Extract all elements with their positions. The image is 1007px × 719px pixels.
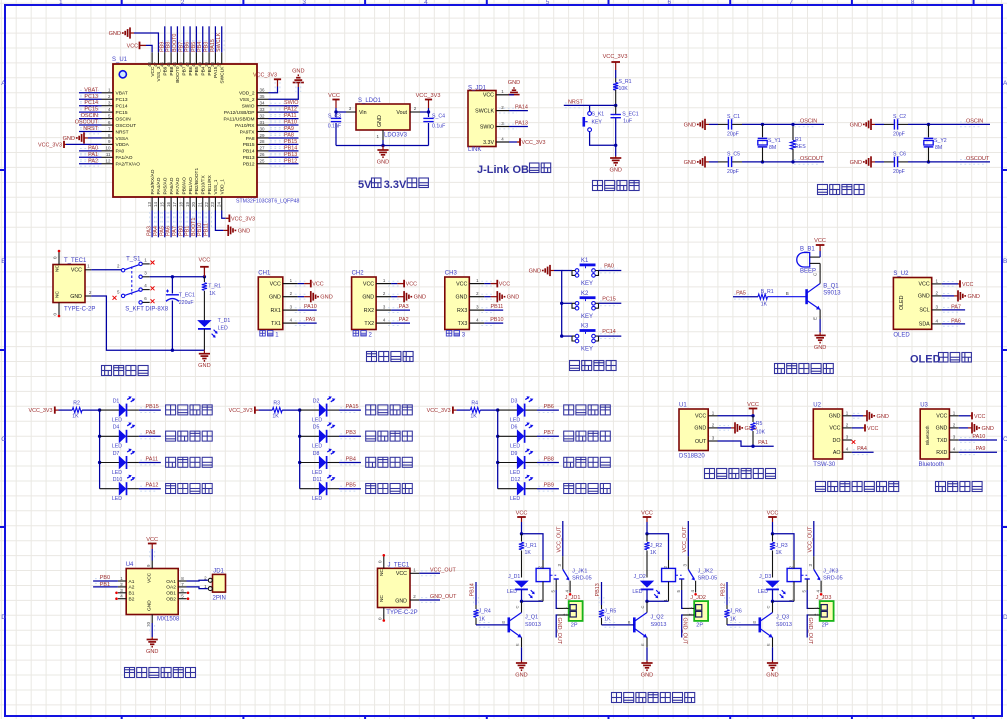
svg-text:1K: 1K (761, 302, 768, 308)
wire (151, 623, 153, 637)
svg-text:GND: GND (146, 649, 158, 655)
ground at J_Q3 (772, 661, 774, 664)
svg-text:GND: GND (829, 414, 841, 420)
power VCC_3V3 at JD1 3.3V pin (509, 138, 545, 146)
junction (771, 600, 774, 603)
svg-text:A: A (1003, 80, 1007, 87)
net label OSCOUT (960, 156, 990, 164)
wire (151, 549, 153, 561)
svg-text:VCC: VCC (456, 281, 467, 287)
svg-text:GND: GND (377, 160, 389, 166)
junction (761, 160, 764, 163)
svg-text:J_JK1: J_JK1 (572, 569, 587, 575)
svg-text:37: 37 (217, 62, 222, 68)
svg-text:BOOT1: BOOT1 (191, 218, 197, 236)
svg-text:1K: 1K (470, 414, 477, 420)
led D3 (498, 396, 534, 423)
svg-text:T_R1: T_R1 (208, 284, 221, 290)
JD1 pin 1 VCC (483, 89, 509, 99)
svg-text:KEY: KEY (581, 347, 593, 353)
svg-text:PB5: PB5 (191, 42, 197, 52)
wire (339, 409, 361, 411)
wire (335, 123, 337, 146)
svg-text:PA6: PA6 (166, 226, 172, 236)
wire (772, 590, 774, 602)
wire (726, 582, 728, 605)
mcu U1 pin 24 VDD_1 (217, 179, 226, 211)
power VCC at buzzer (814, 238, 826, 251)
wire (146, 45, 152, 52)
power VCC_3V3 at U1 VDDA (38, 141, 101, 149)
driver U4 MX1508 body (126, 569, 178, 615)
wire (336, 108, 346, 112)
svg-text:PA5: PA5 (159, 226, 165, 236)
svg-text:PC15: PC15 (84, 107, 98, 113)
power VCC at CH1 (295, 280, 324, 288)
svg-text:C: C (515, 606, 520, 609)
mcu U1 pin 23 VSS_1 (210, 179, 219, 210)
svg-text:C: C (640, 606, 645, 609)
svg-text:VCC: VCC (147, 572, 153, 583)
wire J_Q3 collector (766, 601, 773, 612)
svg-text:J_JK2: J_JK2 (698, 569, 713, 575)
power VCC at U1 pin48 (127, 42, 152, 53)
svg-text:PA2/TX/AO: PA2/TX/AO (116, 162, 141, 168)
net label PB1 (93, 582, 118, 588)
wire (646, 590, 648, 602)
push button S_K1 KEY (584, 112, 605, 132)
mcu U1 pin 21 PB10/TX (198, 175, 207, 211)
relay J_JK1 contact (550, 556, 570, 592)
net label PB12 (269, 158, 299, 166)
svg-text:220uF: 220uF (179, 300, 194, 306)
CH1 part serial-1 (260, 331, 279, 339)
wire (480, 410, 498, 489)
wire (215, 211, 223, 231)
wire (959, 439, 997, 441)
junction (171, 349, 174, 352)
svg-text:RXD: RXD (936, 450, 947, 456)
mcu U1 pin 34 SWIO (242, 101, 269, 110)
CH2 pin 2 GND (362, 291, 391, 301)
mcu U1 pin 29 PA8 (246, 133, 269, 142)
mcu U1 pin 39 PB3 (204, 52, 213, 75)
svg-text:OSCIN: OSCIN (800, 118, 817, 124)
svg-text:TYPE-C-2P: TYPE-C-2P (386, 610, 417, 616)
net label PA9 at U3 (959, 446, 997, 454)
relay J_JK1 SRD-05 coil (536, 560, 550, 602)
sensor U1 DS18B20 body (679, 409, 708, 451)
wire (509, 141, 517, 143)
wire (875, 161, 884, 163)
wire (419, 599, 440, 601)
wire (187, 587, 208, 589)
svg-text:GND: GND (238, 228, 250, 234)
wire (79, 163, 102, 165)
svg-text:GND: GND (456, 295, 468, 301)
svg-text:PC15: PC15 (116, 110, 128, 116)
svg-text:D7: D7 (113, 451, 120, 457)
svg-text:Bluetooth: Bluetooth (925, 425, 930, 445)
wire (139, 409, 161, 411)
wire (195, 26, 197, 52)
svg-text:AO: AO (833, 450, 841, 456)
svg-text:PB8: PB8 (544, 456, 554, 462)
wire (164, 26, 166, 52)
junction (927, 123, 930, 126)
led D2 cathode wire (328, 408, 361, 413)
svg-text:LED: LED (312, 470, 322, 476)
svg-text:PA7: PA7 (172, 226, 178, 236)
svg-text:PB3: PB3 (346, 430, 356, 436)
power VCC_3V3 at led column R3 (229, 407, 259, 415)
svg-text:GND: GND (529, 269, 541, 275)
wire (79, 150, 102, 152)
svg-text:20pF: 20pF (893, 169, 905, 175)
wire (509, 94, 514, 96)
wire (134, 33, 158, 52)
mcu U1 pin 27 PB14 (243, 146, 269, 155)
svg-text:VCC: VCC (962, 282, 973, 288)
svg-text:5V: 5V (358, 179, 372, 191)
svg-text:R2: R2 (73, 401, 80, 407)
wire (599, 270, 622, 272)
net label PB4 (197, 26, 205, 52)
svg-text:VCC_3V3: VCC_3V3 (229, 408, 253, 414)
svg-text:LED: LED (510, 496, 520, 502)
svg-text:PB7: PB7 (178, 42, 184, 52)
svg-text:SWIO: SWIO (242, 104, 255, 110)
CH1 pin 3 RX1 (270, 304, 297, 314)
wire (91, 296, 204, 350)
label light circuit 2 (564, 457, 574, 467)
svg-text:GND: GND (292, 69, 304, 75)
wire (521, 647, 523, 660)
junction (203, 275, 206, 278)
wire (419, 572, 440, 574)
voltage regulator LDO1 body (356, 104, 410, 130)
wire (852, 427, 863, 429)
svg-text:A2: A2 (129, 585, 135, 591)
svg-text:C: C (1003, 436, 1007, 443)
junction (334, 110, 337, 113)
wire (556, 590, 557, 608)
svg-text:PC15: PC15 (602, 296, 616, 302)
svg-text:19: 19 (185, 201, 190, 207)
svg-text:NC: NC (379, 569, 385, 576)
svg-text:B_R1: B_R1 (761, 289, 774, 295)
svg-text:OSCIN: OSCIN (966, 118, 983, 124)
svg-text:PA6/AO: PA6/AO (169, 177, 175, 194)
svg-text:PA12/USB/DP: PA12/USB/DP (224, 110, 255, 116)
svg-text:GND: GND (109, 31, 121, 37)
wire J_Q2 collector (640, 601, 647, 612)
svg-text:LED: LED (758, 589, 768, 595)
J_TEC1 pin 0 top (377, 554, 385, 568)
svg-text:LDO3V3: LDO3V3 (384, 133, 408, 139)
svg-text:TX3: TX3 (458, 321, 468, 327)
switch T_S1 DIP (117, 258, 150, 305)
svg-text:10K: 10K (756, 430, 766, 436)
TEC1 pin 0 top no-connect (53, 250, 61, 265)
svg-text:J_D2: J_D2 (634, 574, 646, 580)
svg-text:VCC: VCC (867, 426, 878, 432)
CH2 pin 4 TX2 (364, 317, 391, 327)
resistor R4 1K (457, 401, 481, 420)
mcu U1 pin 41 PB5 (191, 52, 200, 75)
svg-text:PA0: PA0 (604, 264, 614, 270)
svg-text:B: B (628, 619, 631, 624)
svg-text:PB13: PB13 (243, 155, 255, 161)
net label PA11 (269, 113, 299, 121)
net label SWIO (269, 100, 299, 108)
wire (79, 111, 102, 113)
svg-text:PB1: PB1 (100, 582, 110, 588)
svg-text:SDA: SDA (919, 322, 930, 328)
power VCC_3V3 at led column R4 (427, 407, 457, 415)
wire Q1 emitter to ground (813, 310, 821, 333)
net label PA7 (172, 211, 180, 238)
label light circuit 0 (564, 405, 574, 415)
wire (189, 26, 191, 52)
svg-text:GND: GND (766, 673, 778, 679)
label light circuit 0 (166, 405, 176, 415)
wire (171, 301, 173, 351)
connector J_JD3 2P body (809, 601, 834, 621)
ground at U1 VSS_1 pin23 (215, 211, 250, 237)
wire (807, 615, 808, 638)
svg-text:BOOT0: BOOT0 (172, 34, 178, 52)
no-ERC marks on S1 pins (113, 261, 155, 304)
svg-text:S_U2: S_U2 (893, 271, 909, 277)
svg-text:VBAT: VBAT (84, 87, 98, 93)
svg-text:OB1: OB1 (166, 591, 176, 597)
net label PA2 (79, 158, 102, 166)
led D10 (100, 475, 136, 502)
power VCC at CH2 (388, 280, 417, 288)
power VCC at U4 (146, 537, 158, 561)
U4 pin 9 VCC top (146, 561, 152, 569)
net label PA10 (295, 304, 317, 312)
svg-text:OSCOUT: OSCOUT (75, 120, 99, 126)
led D8 cathode wire (328, 460, 361, 465)
svg-text:20pF: 20pF (893, 131, 905, 137)
led D7 cathode wire (127, 460, 160, 465)
svg-text:S_Y2: S_Y2 (934, 138, 947, 144)
wire (942, 295, 954, 297)
led D5 cathode wire (328, 434, 361, 439)
svg-text:KEY: KEY (581, 314, 593, 320)
svg-text:VCC: VCC (71, 268, 82, 274)
svg-text:PA10: PA10 (972, 434, 985, 440)
svg-text:PA10/RX: PA10/RX (235, 123, 255, 129)
svg-text:VCC: VCC (814, 238, 826, 244)
wire (214, 26, 216, 52)
mcu U1 pin 15 PA5/AO (160, 177, 169, 210)
svg-text:5: 5 (546, 0, 550, 6)
net label PA12 (269, 107, 299, 115)
svg-text:PA2: PA2 (399, 317, 409, 323)
net label SWCLK (216, 26, 224, 52)
wire (959, 451, 997, 453)
ground at CH3 (481, 291, 519, 302)
svg-text:U1: U1 (679, 403, 687, 409)
svg-text:PA10: PA10 (304, 304, 317, 310)
crystal S_Y1 8M (758, 124, 781, 161)
svg-text:0.1uF: 0.1uF (432, 124, 445, 130)
mcu U1 pin 20 PB2/BOOT1 (191, 168, 200, 211)
mcu U1 pin 19 PB1/AO (185, 177, 194, 211)
svg-text:LED: LED (112, 496, 122, 502)
wire (687, 521, 689, 556)
wire (521, 590, 523, 602)
wire (222, 211, 226, 219)
net label VCC_OUT at J_JK2 (682, 521, 689, 556)
junction (171, 275, 174, 278)
svg-text:PB11/RX: PB11/RX (207, 174, 213, 194)
svg-text:C: C (766, 606, 771, 609)
mcu U1 pin 22 PB11/RX (204, 174, 213, 210)
junction (496, 408, 499, 411)
wire (615, 70, 617, 78)
svg-text:42: 42 (185, 62, 190, 68)
wire (556, 615, 557, 638)
svg-text:PA14: PA14 (515, 105, 528, 111)
net label NRST (564, 99, 616, 107)
capacitor S_C4 (423, 112, 445, 146)
svg-text:OB2: OB2 (166, 597, 176, 603)
svg-text:S_C5: S_C5 (727, 151, 740, 157)
svg-text:VDDA: VDDA (116, 142, 130, 148)
wire (259, 409, 273, 411)
net label PB15 (269, 139, 299, 147)
svg-text:DO: DO (833, 438, 841, 444)
wire (79, 156, 102, 158)
svg-text:PB15: PB15 (146, 404, 159, 410)
svg-text:PB1/AO: PB1/AO (188, 177, 194, 195)
wire (509, 126, 528, 128)
resistor J_R4 1K base (473, 605, 508, 627)
svg-text:S_C3: S_C3 (328, 114, 341, 120)
U1 pin 2 GND (694, 422, 717, 431)
wire (718, 427, 732, 429)
power VCC at relay J_R3 (767, 511, 779, 523)
svg-text:GND_OUT: GND_OUT (807, 618, 813, 645)
svg-text:PB0: PB0 (178, 226, 184, 236)
svg-text:PB1: PB1 (185, 226, 191, 236)
svg-text:VCC: VCC (396, 571, 407, 577)
svg-text:3.3V: 3.3V (483, 140, 494, 146)
svg-text:T_EC1: T_EC1 (179, 293, 195, 299)
wire (79, 124, 102, 126)
net label PA15 (210, 26, 218, 52)
wire (509, 110, 528, 112)
resistor R3 1K (259, 401, 283, 420)
svg-text:U3: U3 (920, 403, 928, 409)
svg-text:J_Q1: J_Q1 (525, 615, 538, 621)
mcu U1 pin 17 PA7/AO (172, 177, 181, 210)
wire (195, 211, 197, 238)
svg-text:2P: 2P (696, 623, 703, 629)
svg-text:PB6: PB6 (185, 42, 191, 52)
wire (82, 410, 100, 489)
wire (91, 269, 121, 271)
svg-text:VCC: VCC (767, 511, 779, 517)
svg-text:VCC: VCC (270, 281, 281, 287)
svg-text:S_KFT DIP-8X8: S_KFT DIP-8X8 (125, 307, 169, 313)
svg-text:26: 26 (260, 152, 266, 157)
wire (807, 590, 808, 608)
svg-text:PB10: PB10 (490, 317, 503, 323)
junction (560, 334, 563, 337)
svg-text:PA10: PA10 (284, 120, 297, 126)
svg-text:PA9TX: PA9TX (240, 129, 256, 135)
mcu U1 pin 11 PA1/AO (102, 152, 133, 161)
net label PA6 (942, 318, 965, 326)
U4 pin 6 OB1 (166, 588, 186, 597)
wire (590, 132, 616, 146)
title serial port circuit (367, 352, 377, 362)
wire (772, 522, 774, 534)
wire (852, 415, 863, 417)
svg-text:39: 39 (204, 62, 209, 68)
ground at DS18B20 (718, 422, 757, 433)
wire (183, 211, 185, 238)
svg-text:VCC: VCC (919, 282, 930, 288)
mcu U1 pin 4 PC15 (102, 107, 128, 116)
mcu U1 pin 45 PB8 (166, 52, 175, 75)
svg-text:SWIO: SWIO (284, 100, 299, 106)
wire (176, 211, 178, 238)
wire (420, 108, 429, 112)
svg-text:VCC_3V3: VCC_3V3 (253, 73, 277, 79)
wire (428, 123, 430, 146)
svg-text:PA4: PA4 (857, 446, 867, 452)
wire (391, 322, 410, 324)
svg-text:1uF: 1uF (623, 119, 632, 125)
wire (269, 87, 299, 99)
mcu U1 pin 44 BOOT0 (172, 52, 181, 82)
net label PA9 (269, 126, 299, 134)
svg-text:GND: GND (269, 295, 281, 301)
junction (791, 123, 794, 126)
wire (682, 590, 683, 608)
junction (614, 144, 617, 147)
led D4 cathode wire (127, 434, 160, 439)
mcu U1 pin 14 PA4/AO (153, 177, 162, 210)
svg-text:PA9: PA9 (305, 317, 315, 323)
svg-text:MX1508: MX1508 (157, 617, 180, 623)
svg-text:LED: LED (510, 444, 520, 450)
ground at crystal S_C2 (850, 119, 875, 130)
net label PA5 (733, 291, 758, 299)
title buzzer circuit (775, 364, 785, 374)
svg-text:VCC: VCC (641, 511, 653, 517)
svg-text:VCC_3V3: VCC_3V3 (427, 408, 451, 414)
wire (171, 277, 173, 294)
connector J_JD1 2P body (558, 601, 583, 621)
svg-text:VDD_2: VDD_2 (239, 91, 255, 97)
svg-text:R3: R3 (273, 401, 280, 407)
wire (537, 435, 559, 437)
svg-text:J_JD3: J_JD3 (816, 595, 832, 601)
svg-text:NRST: NRST (568, 99, 583, 105)
svg-text:OSCIN: OSCIN (116, 116, 132, 122)
svg-text:S_Y1: S_Y1 (768, 138, 781, 144)
wire (475, 582, 477, 605)
wire (601, 582, 603, 605)
svg-text:40: 40 (198, 62, 203, 68)
